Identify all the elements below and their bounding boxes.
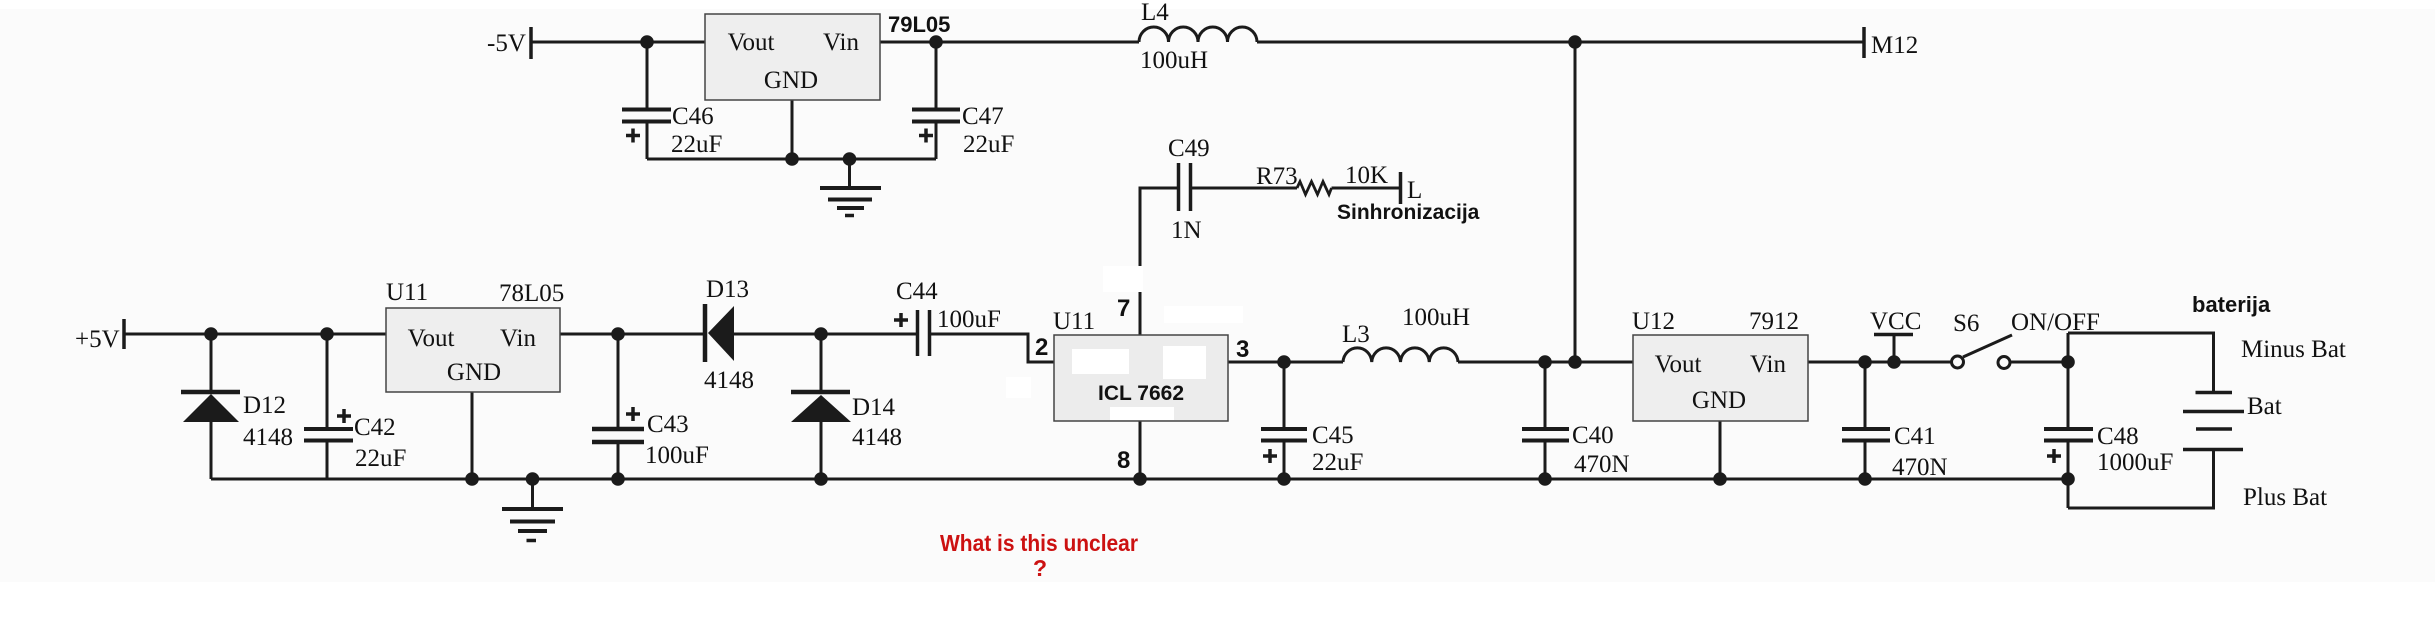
svg-text:100uH: 100uH (1402, 304, 1470, 331)
junction dot rail / C45 (1277, 472, 1291, 486)
svg-text:Vout: Vout (1655, 351, 1702, 378)
junction dot gnd bus / ground symbol (843, 152, 857, 166)
inductor L3 (1343, 348, 1458, 362)
node L terminal (1399, 172, 1403, 204)
ground symbol bottom (502, 479, 563, 541)
junction dot rail / ICL pin8 (1133, 472, 1147, 486)
svg-text:470N: 470N (1892, 454, 1948, 481)
svg-text:4148: 4148 (852, 424, 902, 451)
junction dot +5V rail / D12 (204, 327, 218, 341)
svg-text:100uF: 100uF (645, 442, 709, 469)
diode D14 (791, 334, 851, 479)
svg-text:Vin: Vin (823, 29, 859, 56)
svg-text:22uF: 22uF (963, 131, 1014, 158)
wire U12 GND pin (1719, 421, 1722, 479)
inductor L4 (1139, 27, 1257, 42)
node -5V terminal (529, 27, 533, 59)
diode D13 (705, 304, 821, 362)
wire C44 to ICL pin2 (931, 334, 1054, 362)
svg-text:VCC: VCC (1870, 308, 1921, 335)
capacitor C49 (1179, 163, 1191, 211)
wire L3 to U12 Vout (1458, 361, 1633, 364)
svg-text:100uH: 100uH (1140, 47, 1208, 74)
capacitor C47 (912, 42, 960, 159)
wire C49 to R73 (1192, 187, 1297, 190)
junction dot rail / C43 (611, 472, 625, 486)
svg-text:100uF: 100uF (937, 306, 1001, 333)
junction dot rail / U11 GND (465, 472, 479, 486)
diode D12 (181, 334, 240, 479)
svg-text:C47: C47 (962, 103, 1004, 130)
svg-text:8: 8 (1117, 447, 1130, 474)
ground symbol top (820, 159, 881, 216)
svg-text:What is this unclear: What is this unclear (940, 530, 1138, 556)
svg-text:Plus Bat: Plus Bat (2243, 484, 2327, 511)
junction dot +5V rail / C42 (320, 327, 334, 341)
svg-text:Vin: Vin (1750, 351, 1786, 378)
svg-text:C44: C44 (896, 278, 938, 305)
svg-text:2: 2 (1035, 334, 1048, 361)
svg-text:Vout: Vout (408, 325, 455, 352)
svg-text:-5V: -5V (487, 30, 526, 57)
node +5V terminal (122, 319, 126, 349)
capacitor C45 (1261, 362, 1307, 479)
wire switch to C48 node (2010, 361, 2068, 364)
capacitor C43 (592, 334, 644, 479)
svg-text:U12: U12 (1632, 308, 1675, 335)
junction dot VCC stub (1887, 355, 1901, 369)
svg-text:Bat: Bat (2247, 393, 2282, 420)
svg-text:+5V: +5V (75, 326, 120, 353)
svg-text:22uF: 22uF (1312, 449, 1363, 476)
junction dot U11 Vin / C43 (611, 327, 625, 341)
svg-text:78L05: 78L05 (499, 280, 564, 307)
svg-text:C43: C43 (647, 411, 689, 438)
wire L4 to M12 (1257, 41, 1864, 44)
svg-text:C41: C41 (1894, 423, 1936, 450)
junction dot rail / U12 GND (1713, 472, 1727, 486)
white patch above pin7 (1103, 266, 1143, 292)
svg-text:3: 3 (1236, 336, 1249, 363)
power symbol VCC (1874, 335, 1913, 363)
svg-text:79L05: 79L05 (888, 12, 950, 37)
node M12 terminal (1862, 27, 1866, 58)
regulator U11 78L05 box (386, 308, 560, 392)
svg-text:L4: L4 (1141, 0, 1169, 26)
svg-text:1000uF: 1000uF (2097, 449, 2173, 476)
junction dot -5V rail / C46 (640, 35, 654, 49)
svg-text:22uF: 22uF (671, 131, 722, 158)
junction dot vertical feed / mid rail (1568, 355, 1582, 369)
svg-text:L3: L3 (1342, 321, 1370, 348)
wire U11 Vin to D13 (560, 333, 705, 336)
wire plus bat bottom link (2068, 450, 2214, 509)
svg-text:GND: GND (1692, 387, 1746, 414)
svg-text:GND: GND (764, 67, 818, 94)
svg-text:10K: 10K (1345, 162, 1388, 189)
svg-text:D13: D13 (706, 276, 749, 303)
junction dot 79L05 Vin / C47 (929, 35, 943, 49)
svg-text:D12: D12 (243, 392, 286, 419)
svg-text:M12: M12 (1871, 32, 1918, 59)
wire ground bus under 79L05 (647, 158, 936, 161)
wire 79L05 GND pin (791, 100, 794, 159)
junction dot rail / D14 (814, 472, 828, 486)
junction dot L3 out / C40 (1538, 355, 1552, 369)
svg-text:ICL 7662: ICL 7662 (1098, 382, 1184, 405)
wire R73 to L terminal (1332, 187, 1400, 190)
wire U11 GND pin (471, 392, 474, 479)
junction dot D13 / D14 / C44 (814, 327, 828, 341)
svg-text:?: ? (1033, 555, 1047, 581)
junction dot U12 Vin / C41 (1858, 355, 1872, 369)
wire vertical feed from top rail (1574, 42, 1577, 362)
svg-text:22uF: 22uF (355, 445, 406, 472)
svg-text:S6: S6 (1953, 310, 1979, 337)
svg-text:R73: R73 (1256, 163, 1298, 190)
wire minus bat top link (2068, 333, 2214, 392)
svg-text:ON/OFF: ON/OFF (2011, 309, 2100, 336)
svg-text:470N: 470N (1574, 451, 1630, 478)
svg-text:D14: D14 (852, 394, 896, 421)
junction dot gnd bus / 79L05 GND (785, 152, 799, 166)
wire ground rail (211, 478, 2068, 481)
wire pin3 to L3 (1284, 361, 1343, 364)
svg-text:C42: C42 (354, 414, 396, 441)
svg-text:GND: GND (447, 359, 501, 386)
converter U11 ICL 7662 box (1054, 335, 1228, 421)
capacitor C40 (1522, 362, 1569, 479)
battery Bat (2183, 393, 2244, 450)
wire ICL pin7 riser to C49 (1140, 188, 1177, 335)
wire +5V to U11 Vout (124, 333, 386, 336)
svg-text:C49: C49 (1168, 135, 1210, 162)
capacitor C42 (304, 334, 353, 479)
svg-text:4148: 4148 (243, 424, 293, 451)
svg-text:7912: 7912 (1749, 308, 1799, 335)
regulator U12 7912 box (1633, 335, 1808, 421)
junction dot switch out / C48 top (2061, 355, 2075, 369)
junction dot rail / ground symbol (526, 472, 540, 486)
svg-text:C48: C48 (2097, 423, 2139, 450)
note red text (940, 530, 1138, 581)
junction dot top rail / vertical feed (1568, 35, 1582, 49)
svg-text:baterija: baterija (2192, 292, 2271, 317)
svg-text:7: 7 (1117, 295, 1130, 322)
wire 79L05 Vin to L4 (880, 41, 1139, 44)
capacitor C48 (2044, 333, 2093, 508)
svg-text:U11: U11 (1053, 308, 1095, 335)
capacitor C41 (1842, 362, 1890, 479)
svg-text:4148: 4148 (704, 367, 754, 394)
regulator 79L05 box (705, 14, 880, 100)
junction dot rail / C48 bottom (2061, 472, 2075, 486)
wire -5V to 79L05 Vout (531, 41, 705, 44)
wire ICL pin3 (1228, 361, 1284, 364)
svg-text:C40: C40 (1572, 422, 1614, 449)
white patch left of ICL box (1006, 377, 1031, 398)
capacitor C46 (622, 42, 671, 159)
wire U12 Vin to switch (1808, 361, 1951, 364)
svg-text:Sinhronizacija: Sinhronizacija (1337, 201, 1480, 224)
junction dot rail / C40 (1538, 472, 1552, 486)
white patch above ICL box (1164, 306, 1243, 323)
wire D13 to C44 (821, 333, 916, 336)
svg-text:U11: U11 (386, 279, 428, 306)
svg-text:Vout: Vout (728, 29, 775, 56)
switch S6 (1952, 335, 2013, 369)
svg-text:L: L (1407, 177, 1422, 204)
svg-text:C45: C45 (1312, 422, 1354, 449)
junction dot pin3 / C45 (1277, 355, 1291, 369)
capacitor C44 (894, 310, 930, 356)
junction dot rail / C41 (1858, 472, 1872, 486)
resistor R73 (1297, 182, 1332, 195)
svg-text:1N: 1N (1171, 217, 1202, 244)
svg-text:Minus Bat: Minus Bat (2241, 336, 2346, 363)
wire ICL pin8 (1139, 421, 1142, 479)
svg-text:C46: C46 (672, 103, 714, 130)
svg-text:Vin: Vin (500, 325, 536, 352)
